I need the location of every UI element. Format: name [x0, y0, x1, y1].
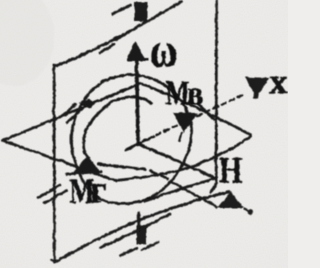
line from wheel bottom to frame corner: [145, 178, 214, 201]
vertical gimbal frame: left edge: [52, 65, 55, 262]
bottom support line: [100, 214, 170, 248]
H vector line segment c: [172, 182, 216, 207]
Mg arrow base line: [66, 171, 101, 174]
x axis solid segment through centre: [125, 136, 153, 150]
vertical gimbal frame: right edge: [210, 0, 216, 192]
Mv moment arrowhead: [173, 112, 198, 133]
rotor axis omega: shaft lower stub: [136, 213, 139, 226]
top support hatch above rect: [112, 5, 130, 14]
horizontal plane edge C-D: [115, 136, 250, 180]
horizontal plane edge B-C: [140, 83, 250, 134]
omega arrowhead: [127, 41, 149, 61]
H arrowhead: [217, 191, 244, 208]
vertical gimbal frame: top edge: [54, 1, 182, 66]
horizontal plane edge D-A: [2, 140, 115, 180]
x axis dashed line: [156, 94, 243, 135]
hatch marks lower left: [38, 185, 60, 198]
hatch marks lower left (2): [44, 190, 66, 203]
gray smudge top-left: [0, 0, 54, 86]
H arrow tail dot: [244, 209, 247, 211]
top support hatch 2: [116, 32, 129, 40]
vertical gimbal frame: bottom edge running to H arrowhead: [54, 192, 228, 263]
short hatch at frame edge crossing: [198, 103, 214, 119]
bottom bearing block: [136, 225, 146, 244]
hatch marks on edge A-B: [60, 104, 75, 118]
top support hatch 1: [100, 44, 113, 52]
Mg moment arrowhead: [73, 155, 100, 172]
H vector line dashes: [150, 171, 167, 179]
top bearing block: [134, 2, 147, 22]
horizontal plane edge A-B: [2, 83, 140, 140]
Mv arrow tail stub: [179, 132, 182, 141]
bottom support hatch right: [141, 242, 158, 250]
small tick at frame bottom corner: [50, 260, 54, 262]
H vector line segment a: [140, 145, 214, 178]
bottom support hatch left: [120, 248, 136, 256]
H vector line segment b: [98, 164, 146, 170]
x axis arrowhead: [245, 77, 269, 99]
hatch marks on edge A-B (2): [67, 109, 82, 123]
rotor wheel inner rim arc: [83, 96, 151, 157]
ink blotch at rim / plane edge crossing: [78, 98, 95, 108]
rotor wheel outer rim: [71, 74, 191, 203]
rotor axis omega: shaft upper: [136, 58, 137, 144]
